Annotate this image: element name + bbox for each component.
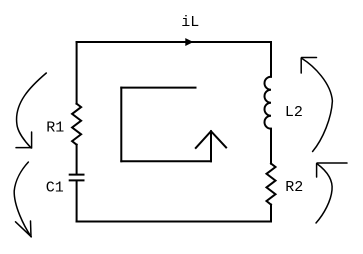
wire bottom xyxy=(77,221,271,223)
curved arrow left-top shaft xyxy=(17,73,47,148)
inductor L2 xyxy=(265,77,271,129)
resistor R2 xyxy=(267,164,276,205)
curved arrow right-bottom head xyxy=(317,163,347,177)
mesh loop top line xyxy=(121,87,195,89)
mesh arrowhead xyxy=(196,131,226,148)
wire right upper xyxy=(270,42,272,77)
curved arrow left-top head xyxy=(16,132,32,148)
curved arrow left-bottom shaft xyxy=(14,162,31,237)
svg-text:L2: L2 xyxy=(285,104,303,121)
mesh loop bottom line xyxy=(121,160,211,162)
curved arrow right-top shaft xyxy=(302,59,332,152)
curved arrow right-bottom shaft xyxy=(316,164,332,223)
wire left lower xyxy=(76,181,78,221)
wire left upper xyxy=(76,42,78,104)
wire right lower xyxy=(270,205,272,222)
svg-text:R2: R2 xyxy=(285,179,303,196)
svg-text:R1: R1 xyxy=(46,119,64,136)
capacitor C1 xyxy=(70,175,84,181)
resistor R1 xyxy=(72,104,81,145)
wire top xyxy=(77,41,271,43)
wire left middle xyxy=(76,145,78,174)
svg-text:C1: C1 xyxy=(46,180,64,197)
current arrow on top wire xyxy=(186,39,193,46)
mesh arrow stem xyxy=(210,131,212,161)
wire right middle xyxy=(270,129,272,164)
curved arrow left-bottom head xyxy=(16,221,32,237)
svg-text:iL: iL xyxy=(181,14,199,31)
curved arrow right-top head xyxy=(301,58,316,74)
mesh loop left line xyxy=(120,88,122,162)
